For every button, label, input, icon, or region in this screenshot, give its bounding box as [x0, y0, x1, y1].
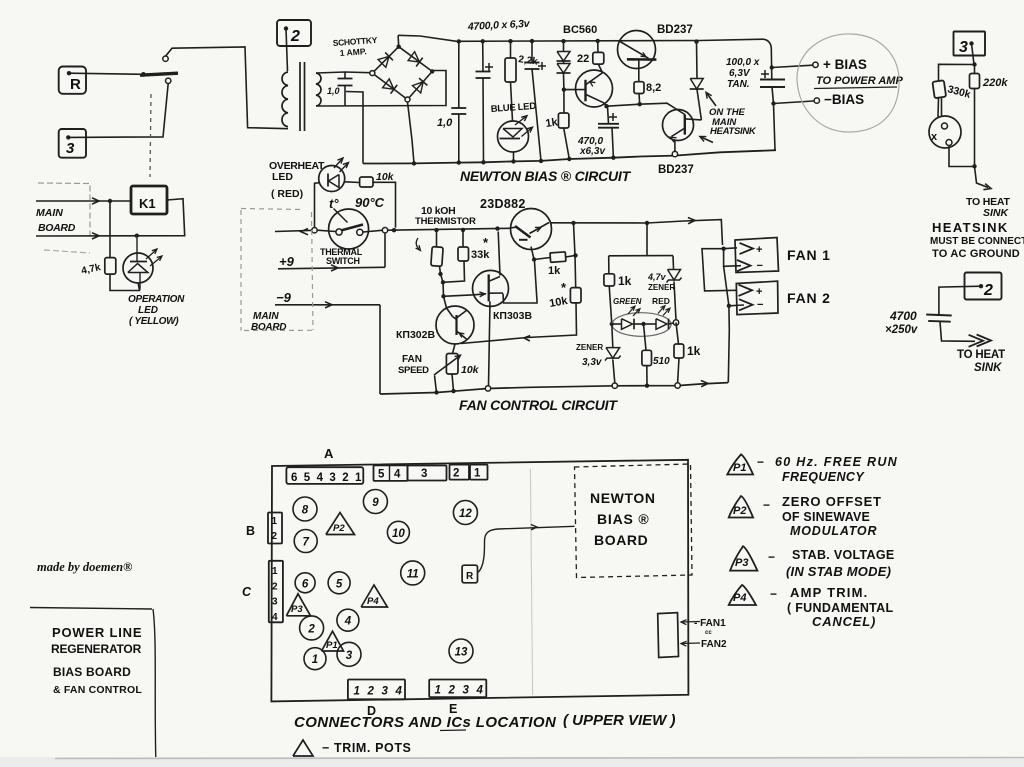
- svg-text:TO AC GROUND: TO AC GROUND: [932, 248, 1020, 260]
- svg-text:3: 3: [346, 650, 353, 662]
- svg-text:( RED): ( RED): [271, 188, 303, 200]
- svg-text:STAB. VOLTAGE: STAB. VOLTAGE: [792, 548, 895, 562]
- svg-text:−9: −9: [276, 290, 292, 305]
- svg-text:23D882: 23D882: [480, 197, 526, 211]
- svg-text:R: R: [466, 571, 474, 582]
- svg-text:2: 2: [342, 472, 348, 484]
- svg-text:FREQUENCY: FREQUENCY: [782, 470, 865, 484]
- svg-text:1: 1: [435, 685, 441, 697]
- svg-text:4,7v: 4,7v: [647, 272, 667, 282]
- svg-text:2: 2: [290, 28, 300, 45]
- svg-text:10k: 10k: [461, 364, 480, 376]
- svg-text:MAIN: MAIN: [253, 311, 279, 322]
- svg-text:4: 4: [272, 612, 278, 623]
- svg-text:HEATSINK: HEATSINK: [710, 126, 757, 137]
- svg-text:−: −: [757, 260, 763, 272]
- svg-text:1: 1: [312, 654, 318, 666]
- svg-text:12: 12: [459, 508, 472, 520]
- svg-text:1k: 1k: [618, 274, 632, 288]
- svg-text:MUST BE CONNECTED: MUST BE CONNECTED: [930, 236, 1024, 247]
- svg-text:TO POWER AMP: TO POWER AMP: [816, 75, 903, 87]
- svg-text:4700: 4700: [889, 309, 917, 323]
- svg-text:5: 5: [304, 472, 311, 484]
- svg-text:SINK: SINK: [983, 207, 1010, 219]
- svg-text:1: 1: [272, 516, 278, 527]
- svg-text:−: −: [757, 299, 763, 311]
- svg-text:2: 2: [272, 581, 278, 592]
- svg-text:LED: LED: [272, 171, 293, 183]
- svg-text:3: 3: [329, 472, 335, 484]
- svg-text:K1: K1: [139, 196, 156, 211]
- svg-text:P4: P4: [367, 596, 379, 607]
- svg-text:3: 3: [463, 685, 470, 697]
- svg-text:SINK: SINK: [974, 362, 1002, 374]
- svg-text:BOARD: BOARD: [251, 322, 286, 333]
- svg-text:P3: P3: [291, 604, 303, 615]
- svg-text:BIAS BOARD: BIAS BOARD: [53, 665, 131, 679]
- svg-text:−: −: [770, 587, 777, 601]
- svg-text:CONNECTORS AND ICs LOCATION: CONNECTORS AND ICs LOCATION: [294, 714, 557, 731]
- svg-text:1: 1: [354, 686, 360, 698]
- svg-text:90°C: 90°C: [355, 195, 385, 210]
- svg-text:FAN 2: FAN 2: [787, 290, 831, 306]
- svg-text:& FAN CONTROL: & FAN CONTROL: [53, 684, 142, 696]
- svg-text:ZENER: ZENER: [648, 283, 675, 292]
- svg-text:4: 4: [395, 686, 403, 698]
- svg-text:3: 3: [272, 597, 278, 608]
- svg-text:+9: +9: [279, 254, 295, 269]
- svg-text:10: 10: [392, 528, 405, 540]
- svg-text:−: −: [768, 550, 775, 564]
- svg-text:220k: 220k: [982, 77, 1008, 89]
- svg-text:P2: P2: [333, 523, 345, 534]
- svg-text:2: 2: [453, 468, 459, 480]
- svg-text:CANCEL): CANCEL): [812, 614, 876, 629]
- svg-text:SWITCH: SWITCH: [326, 256, 360, 266]
- svg-text:2: 2: [448, 685, 456, 697]
- svg-text:1 AMP.: 1 AMP.: [339, 46, 367, 58]
- svg-text:FAN 1: FAN 1: [787, 247, 831, 263]
- svg-text:1k: 1k: [687, 344, 701, 358]
- svg-text:ZENER: ZENER: [576, 343, 603, 352]
- svg-text:C: C: [242, 585, 252, 599]
- svg-text:3: 3: [66, 140, 75, 157]
- svg-text:- FAN1: - FAN1: [694, 618, 726, 629]
- svg-text:OF SINEWAVE: OF SINEWAVE: [782, 510, 870, 524]
- svg-text:−: −: [763, 498, 770, 512]
- svg-text:ZERO OFFSET: ZERO OFFSET: [782, 494, 882, 509]
- svg-text:cc: cc: [705, 630, 712, 636]
- svg-text:REGENERATOR: REGENERATOR: [51, 642, 142, 656]
- svg-text:FAN2: FAN2: [701, 639, 727, 650]
- svg-text:( UPPER VIEW ): ( UPPER VIEW ): [563, 712, 676, 729]
- svg-text:P4: P4: [733, 592, 746, 604]
- svg-text:4: 4: [344, 616, 352, 628]
- svg-text:+: +: [756, 286, 762, 298]
- svg-text:AMP TRIM.: AMP TRIM.: [790, 585, 868, 600]
- svg-text:5: 5: [336, 578, 343, 590]
- svg-text:3: 3: [382, 686, 389, 698]
- svg-text:x: x: [931, 131, 938, 143]
- svg-text:BOARD: BOARD: [594, 532, 648, 548]
- svg-text:10k: 10k: [376, 171, 395, 183]
- svg-text:1: 1: [474, 468, 481, 480]
- svg-text:( YELLOW): ( YELLOW): [129, 316, 179, 327]
- svg-text:7: 7: [302, 537, 309, 549]
- svg-text:×250v: ×250v: [885, 324, 918, 336]
- svg-text:P1: P1: [733, 462, 746, 474]
- svg-text:TAN.: TAN.: [727, 79, 750, 90]
- svg-text:x6,3v: x6,3v: [579, 146, 606, 157]
- svg-text:P1: P1: [326, 640, 338, 651]
- svg-text:13: 13: [455, 647, 468, 659]
- svg-text:4: 4: [317, 472, 324, 484]
- svg-text:+: +: [756, 244, 762, 256]
- svg-text:made by doemen®: made by doemen®: [37, 560, 132, 574]
- svg-text:FAN: FAN: [402, 354, 422, 365]
- svg-text:4: 4: [476, 685, 484, 697]
- svg-text:60 Hz. FREE RUN: 60 Hz. FREE RUN: [775, 455, 898, 469]
- svg-text:9: 9: [372, 497, 379, 509]
- svg-text:MAIN: MAIN: [36, 207, 63, 219]
- svg-text:6: 6: [302, 578, 309, 590]
- svg-text:B: B: [246, 524, 255, 538]
- svg-text:THERMISTOR: THERMISTOR: [415, 216, 476, 227]
- svg-text:A: A: [324, 446, 334, 461]
- svg-text:−: −: [757, 455, 764, 469]
- svg-text:8: 8: [302, 505, 309, 517]
- svg-text:RED: RED: [652, 296, 670, 306]
- svg-text:P2: P2: [733, 505, 746, 517]
- svg-text:SPEED: SPEED: [398, 365, 429, 376]
- svg-text:FAN CONTROL CIRCUIT: FAN CONTROL CIRCUIT: [459, 397, 618, 413]
- svg-text:3: 3: [959, 39, 968, 56]
- svg-text:1: 1: [355, 472, 362, 484]
- svg-text:+ BIAS: + BIAS: [823, 57, 867, 72]
- svg-text:BD237: BD237: [658, 164, 694, 176]
- svg-text:510: 510: [653, 356, 670, 367]
- svg-text:1: 1: [272, 566, 278, 577]
- svg-text:КП302В: КП302В: [396, 329, 435, 341]
- svg-text:MODULATOR: MODULATOR: [790, 524, 877, 538]
- svg-text:22: 22: [577, 53, 589, 65]
- svg-text:BC560: BC560: [563, 24, 597, 36]
- svg-text:100,0 x: 100,0 x: [726, 57, 760, 68]
- svg-text:КП303В: КП303В: [493, 310, 532, 322]
- svg-text:33k: 33k: [471, 249, 490, 261]
- svg-text:OPERATION: OPERATION: [128, 294, 185, 305]
- svg-text:NEWTON BIAS ® CIRCUIT: NEWTON BIAS ® CIRCUIT: [460, 168, 632, 184]
- svg-text:R: R: [70, 76, 81, 93]
- svg-text:11: 11: [407, 568, 419, 580]
- svg-text:6,3V: 6,3V: [729, 68, 751, 79]
- svg-text:6: 6: [291, 472, 297, 484]
- svg-text:HEATSINK: HEATSINK: [932, 220, 1009, 235]
- svg-text:3: 3: [421, 468, 427, 480]
- svg-text:5: 5: [378, 469, 385, 481]
- svg-text:( FUNDAMENTAL: ( FUNDAMENTAL: [787, 601, 893, 615]
- svg-text:(IN STAB MODE): (IN STAB MODE): [786, 564, 891, 579]
- svg-text:1,0: 1,0: [437, 117, 453, 129]
- svg-text:2: 2: [272, 531, 278, 542]
- svg-text:2: 2: [307, 623, 315, 635]
- svg-text:8,2: 8,2: [646, 82, 661, 94]
- svg-text:3,3v: 3,3v: [582, 357, 603, 368]
- svg-text:TO HEAT: TO HEAT: [957, 349, 1005, 361]
- svg-text:2: 2: [367, 686, 375, 698]
- svg-text:BIAS ®: BIAS ®: [597, 511, 649, 527]
- svg-text:POWER LINE: POWER LINE: [52, 625, 142, 640]
- svg-text:1,0: 1,0: [327, 86, 340, 96]
- svg-text:NEWTON: NEWTON: [590, 490, 656, 506]
- svg-text:BD237: BD237: [657, 24, 693, 36]
- svg-text:−BIAS: −BIAS: [824, 92, 864, 107]
- svg-text:LED: LED: [138, 305, 158, 316]
- svg-text:GREEN: GREEN: [613, 297, 642, 306]
- svg-text:1k: 1k: [548, 265, 561, 277]
- svg-text:4: 4: [394, 469, 401, 481]
- svg-text:BOARD: BOARD: [38, 222, 76, 234]
- svg-text:t°: t°: [329, 196, 339, 211]
- svg-text:P3: P3: [735, 557, 748, 569]
- svg-text:2: 2: [983, 282, 993, 299]
- svg-text:− TRIM. POTS: − TRIM. POTS: [322, 741, 412, 755]
